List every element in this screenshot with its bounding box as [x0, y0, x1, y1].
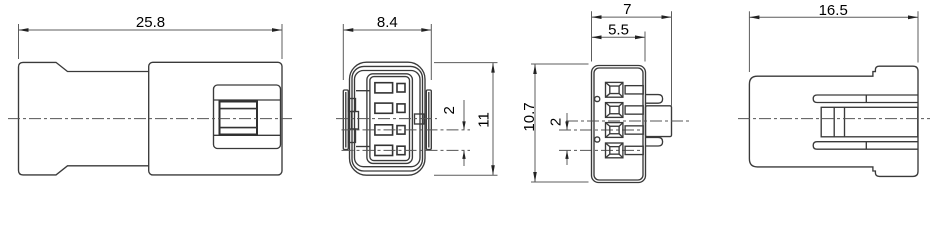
view1 terminal block — [220, 102, 258, 135]
view4 middle cavity rect — [821, 107, 918, 137]
dim 5.5 line — [592, 36, 646, 38]
svg-text:2: 2 — [441, 106, 458, 114]
dim 10.7 arrow down — [533, 172, 537, 182]
view2 inner face outline — [370, 77, 410, 161]
view3 terminal row2 — [606, 103, 644, 118]
dim 5.5 arrow right — [635, 35, 645, 39]
svg-text:8.4: 8.4 — [377, 14, 398, 31]
dim 7 arrow right — [662, 15, 672, 19]
view1 latch slot line bottom — [214, 134, 281, 136]
dim 2 (view2) arrow up — [462, 150, 465, 159]
dim 7 line — [592, 16, 672, 18]
view2 left ledge line lower — [356, 146, 370, 148]
view1 latch slot line top — [214, 99, 281, 101]
view2 left ledge line upper — [356, 90, 370, 92]
view4 bottom bar tick — [865, 142, 867, 150]
view2 left latch key lower — [349, 129, 356, 143]
dim 25.8 line — [19, 29, 283, 31]
dim 2 (view3) upper segment — [566, 113, 568, 130]
dim 16.5 arrow right — [908, 15, 918, 19]
view4 bottom terminal bar — [813, 142, 918, 150]
dim 16.5 extension right — [917, 11, 919, 62]
view3 extension right for 7 — [671, 11, 673, 106]
dim 2 (view2) arrow down — [462, 121, 465, 129]
view4 cavity divider 1 — [833, 107, 835, 137]
view3 extension right for 5.5 — [644, 32, 646, 62]
view3 terminal row4 — [606, 143, 644, 158]
dim 7 arrow left — [592, 15, 602, 19]
view3 big middle tab — [646, 106, 672, 137]
view3 body inner outline — [594, 68, 643, 180]
dim 8.4 arrow right — [421, 28, 431, 32]
dim 25.8 arrow right — [272, 28, 282, 32]
dim 11 arrow down — [491, 165, 495, 175]
dim 2 (view2) upper segment — [463, 100, 465, 130]
dim 11 extension bottom — [434, 174, 498, 176]
view3 terminal row3 — [606, 123, 644, 138]
view2 cavity row1 wide — [375, 83, 393, 93]
view3 terminal row1 — [606, 82, 644, 97]
view3 row3 axis dash line — [559, 129, 643, 131]
svg-text:10.7: 10.7 — [521, 102, 538, 131]
view3 left nub lower — [595, 137, 600, 142]
dim 11 arrow up — [491, 63, 495, 73]
dim 16.5 line — [749, 16, 918, 18]
dim 25.8 extension line right — [281, 24, 283, 59]
dim 25.8 arrow left — [19, 28, 29, 32]
view2 left ear — [343, 90, 348, 150]
svg-text:5.5: 5.5 — [608, 21, 629, 38]
dim 5.5 arrow left — [592, 35, 602, 39]
dim 8.4 line — [343, 29, 431, 31]
dim 25.8 extension line left — [18, 24, 20, 59]
dim 8.4 extension line right — [430, 24, 432, 80]
view1 body right housing box — [149, 62, 282, 175]
view2 right keying notch — [415, 114, 425, 124]
dim 11 extension top — [434, 62, 498, 64]
dim 2 (view3) arrow up — [565, 150, 568, 159]
view2 row3 axis dash line — [342, 129, 471, 131]
dim 11 line — [492, 63, 494, 176]
view1 latch outline — [214, 85, 281, 149]
view4 top bar tick — [865, 95, 867, 103]
view1 body left housing outline — [19, 62, 149, 174]
view2 left ear inner line — [345, 92, 347, 148]
view3 top small tab — [646, 95, 663, 104]
dim 10.7 extension bottom — [531, 181, 589, 183]
view2 centerline — [336, 118, 437, 120]
view3 row4 axis dash line — [559, 149, 643, 151]
view2 right ear inner line — [428, 92, 430, 148]
view4 cavity divider 2 — [844, 107, 846, 137]
view3 bottom small tab — [646, 137, 663, 146]
svg-text:2: 2 — [548, 118, 565, 126]
view2 outer shell outline 1 — [350, 62, 426, 175]
dim 10.7 extension top — [531, 63, 589, 65]
view2 cavity row1 small — [397, 84, 405, 93]
dim 10.7 line — [534, 64, 536, 182]
dim 8.4 arrow left — [343, 28, 353, 32]
view3 body outer outline — [592, 66, 646, 183]
svg-text:25.8: 25.8 — [136, 14, 165, 31]
view2 cavity row3 small — [397, 126, 405, 135]
dim 2 (view2) lower segment — [463, 150, 465, 166]
dim 10.7 arrow up — [533, 64, 537, 74]
view2 left latch key upper — [349, 99, 356, 112]
view1 terminal block inner line top — [220, 108, 258, 110]
svg-text:11: 11 — [476, 112, 493, 128]
view4 top terminal bar — [813, 95, 918, 103]
svg-text:16.5: 16.5 — [819, 2, 848, 19]
dim 16.5 arrow left — [749, 15, 759, 19]
dim 2 (view3) lower segment — [566, 150, 568, 165]
view1 centerline — [8, 118, 292, 120]
view1 terminal block inner line bottom — [220, 127, 258, 129]
view2 cavity row3 wide — [375, 125, 393, 135]
dim 16.5 extension left — [748, 11, 750, 72]
view3 centerline — [566, 120, 689, 122]
view3 extension left shared — [591, 11, 593, 61]
view2 cavity row4 small — [397, 146, 405, 155]
dim 8.4 extension line left — [342, 24, 344, 80]
view2 shell outline 4 — [367, 74, 413, 164]
view2 left latch key middle — [352, 112, 359, 130]
view4 body outline — [749, 66, 918, 176]
view2 shell outline 2 — [352, 66, 423, 171]
view4 centerline — [738, 118, 930, 120]
svg-text:7: 7 — [623, 1, 631, 18]
view2 shell outline 3 — [355, 71, 421, 167]
view3 left nub upper — [595, 96, 600, 101]
view2 cavity row2 small — [397, 104, 405, 113]
view2 cavity row4 wide — [375, 145, 393, 155]
view2 right ear — [426, 90, 431, 150]
view2 row4 axis dash line — [342, 149, 471, 151]
view2 cavity row2 wide — [375, 103, 393, 113]
dim 2 (view3) arrow down — [565, 122, 568, 131]
